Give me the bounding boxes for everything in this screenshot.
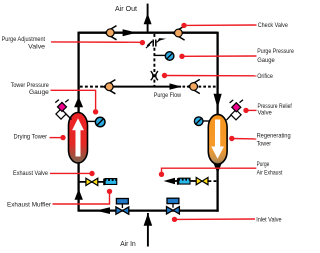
purge pressure gauge	[154, 52, 174, 61]
svg-text:Purge Flow: Purge Flow	[154, 92, 182, 99]
svg-text:Inlet Valve: Inlet Valve	[256, 216, 282, 223]
svg-text:Check Valve: Check Valve	[258, 22, 289, 29]
label: Inlet Valve	[172, 216, 282, 223]
orifice	[151, 71, 158, 80]
svg-text:Gauge: Gauge	[29, 89, 49, 96]
svg-text:Air In: Air In	[120, 241, 136, 248]
svg-text:Drying Tower: Drying Tower	[14, 134, 48, 141]
svg-text:Exhaust Muffler: Exhaust Muffler	[7, 201, 51, 208]
drying tower T1	[69, 113, 88, 164]
tower pressure gauge (left tower)	[87, 117, 105, 127]
purge air muffler	[178, 178, 191, 185]
label: Exhaust Valve	[13, 170, 95, 177]
wire: purge flow dashed right segment	[199, 86, 217, 88]
inlet valve V1 (left, blue)	[116, 199, 129, 215]
purge air exhaust wire	[174, 180, 179, 182]
svg-text:Exhaust Valve: Exhaust Valve	[13, 170, 48, 177]
check valve CV1 top left	[105, 26, 117, 40]
node: air in line	[120, 213, 152, 248]
pressure relief valve (left tower)	[55, 100, 71, 120]
wire: bottom pipe	[78, 209, 219, 211]
label: Purge Pressure Gauge	[179, 48, 294, 64]
label: Tower Pressure Gauge	[11, 82, 99, 115]
wire muffler to purge valve	[191, 180, 197, 182]
svg-text:Valve: Valve	[28, 44, 46, 51]
pressure relief valve (right tower)	[227, 100, 244, 120]
wire: purge flow dashed left segment	[80, 86, 104, 88]
flow arrow up on left pipe	[74, 97, 83, 108]
wire: top pipe	[79, 32, 217, 34]
wire: purge flow solid segment	[112, 86, 181, 88]
label: Regenerating Tower	[229, 133, 291, 148]
node: air out line	[115, 4, 152, 33]
check valve CV2 top right	[173, 26, 185, 40]
check valve CV3 purge row left	[104, 80, 116, 94]
svg-text:Gauge: Gauge	[257, 57, 275, 64]
wire: right vertical pipe upper	[216, 32, 218, 115]
label: Drying Tower	[14, 134, 66, 141]
svg-text:Air Exhaust: Air Exhaust	[257, 169, 283, 176]
exhaust muffler	[104, 178, 117, 185]
wire: right vertical pipe lower	[216, 162, 218, 212]
svg-text:Regenerating: Regenerating	[257, 133, 291, 140]
purge exhaust valve (yellow)	[196, 177, 208, 184]
label: Exhaust Muffler	[7, 189, 112, 209]
exhaust valve branch wire	[80, 181, 106, 183]
flow arrow down on right pipe above tower	[214, 94, 222, 109]
flow arrow right on top pipe	[123, 29, 137, 36]
gauge on regenerating tower	[194, 117, 209, 126]
exhaust valve (yellow)	[86, 178, 98, 185]
wire: purge adjust dashed vertical	[153, 34, 155, 37]
svg-text:Tower: Tower	[257, 140, 271, 147]
svg-text:Purge: Purge	[257, 161, 270, 168]
label: Check Valve	[181, 22, 288, 29]
svg-text:Air Out: Air Out	[115, 6, 137, 13]
label: Orifice	[162, 73, 274, 80]
wire: left vertical pipe upper	[77, 32, 79, 114]
svg-text:Purge Pressure: Purge Pressure	[257, 48, 294, 55]
purge air exhaust arrow (left pointing)	[164, 178, 175, 185]
label: Purge Adjustment Valve	[2, 36, 146, 50]
svg-text:Orifice: Orifice	[257, 73, 273, 80]
purge adjustment valve symbol	[146, 38, 166, 48]
label: Purge Air Exhaust	[159, 161, 283, 177]
inlet valve V2 (right, blue)	[167, 198, 180, 214]
flow arrow right on purge flow line	[170, 83, 182, 89]
wire purge valve to pipe dashed	[209, 180, 218, 182]
label: Pressure Relief Valve	[243, 103, 292, 116]
svg-text:Valve: Valve	[258, 109, 273, 116]
wire: left vertical pipe lower	[77, 162, 79, 212]
check valve CV4 purge row right	[188, 79, 200, 93]
svg-text:Purge Adjustment: Purge Adjustment	[2, 36, 46, 43]
wire: purge flow dashed mid segment	[183, 86, 189, 88]
regenerating tower T2	[208, 114, 227, 164]
flow arrow up on left lower pipe	[75, 189, 83, 200]
flow arrow left on bottom pipe	[96, 207, 110, 214]
flow arrow down on right pipe below tower	[214, 164, 222, 174]
